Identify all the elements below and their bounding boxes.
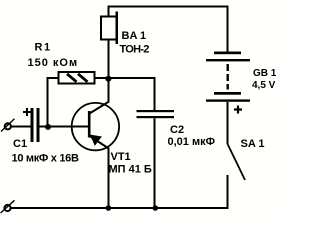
node: junction C1/R1 [45, 124, 51, 130]
svg-text:SA 1: SA 1 [241, 138, 265, 150]
svg-text:0,01 мкФ: 0,01 мкФ [168, 136, 216, 148]
svg-text:GB 1: GB 1 [253, 68, 277, 79]
svg-text:4,5 V: 4,5 V [252, 80, 276, 91]
svg-text:ТОН-2: ТОН-2 [120, 44, 150, 56]
svg-text:10 мкФ х 16В: 10 мкФ х 16В [12, 153, 79, 165]
transistor VT1 [72, 102, 119, 151]
svg-text:BA 1: BA 1 [122, 30, 147, 42]
wire BA1 bottom to collector [108, 41, 110, 103]
wire C2 bottom down [154, 118, 156, 208]
capacitor C1 [31, 108, 40, 142]
polarity + of C1 [23, 108, 31, 116]
wire R1 left leg [48, 78, 58, 127]
wire battery to switch [227, 102, 229, 145]
svg-text:150 кОм: 150 кОм [28, 57, 79, 69]
wire emitter down [108, 148, 110, 209]
wire R1 right to C2 drop [96, 78, 155, 110]
resistor R1 [59, 72, 95, 84]
svg-text:VT1: VT1 [111, 151, 131, 163]
battery GB1 [206, 52, 250, 102]
svg-text:R1: R1 [35, 41, 52, 53]
wire C1 to base [40, 126, 89, 128]
node: C2 to rail [153, 205, 159, 211]
emitter arrow of VT1 [91, 135, 101, 145]
loudspeaker BA1 [100, 12, 117, 45]
capacitor C2 [137, 110, 175, 118]
wire switch bottom / bottom rail [12, 175, 228, 208]
svg-text:C1: C1 [13, 138, 27, 150]
node: emitter to rail [106, 205, 112, 211]
wire top loop: BA1 top to battery top [109, 7, 228, 52]
svg-text:C2: C2 [170, 124, 184, 136]
wire input to base [12, 126, 31, 128]
terminal input top [1, 119, 15, 132]
switch SA1 blade [228, 145, 245, 181]
terminal input bottom [1, 200, 15, 213]
polarity + of GB1 [234, 106, 242, 114]
svg-text:МП 41 Б: МП 41 Б [109, 164, 152, 176]
node: junction R1/collector [105, 76, 111, 82]
